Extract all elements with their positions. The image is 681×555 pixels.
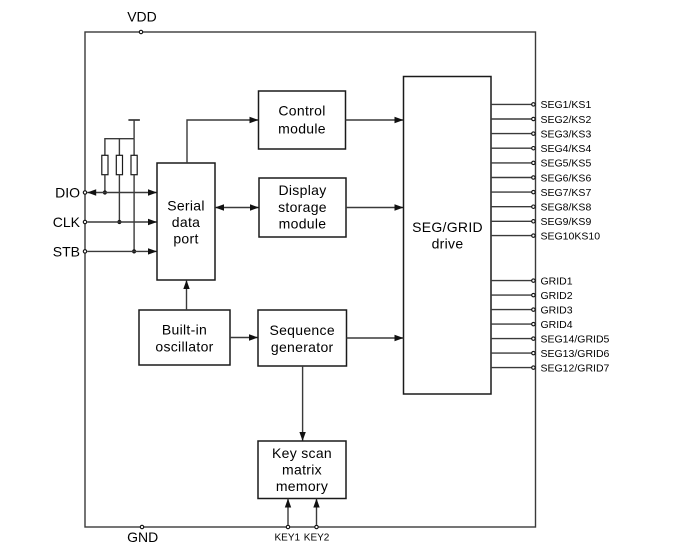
svg-text:oscillator: oscillator bbox=[155, 338, 213, 354]
resistor R2 (CLK pull-up) bbox=[116, 155, 122, 174]
pin SEG5/KS5 bbox=[491, 158, 591, 170]
block Key scan matrix memory bbox=[258, 441, 346, 499]
resistor R1 (DIO pull-up) bbox=[102, 155, 108, 174]
svg-text:Sequence: Sequence bbox=[269, 322, 334, 338]
junction STB-R3 bbox=[132, 249, 136, 253]
svg-text:Built-in: Built-in bbox=[162, 321, 207, 337]
pin GRID3 bbox=[491, 304, 573, 316]
pin VDD bbox=[127, 9, 157, 34]
svg-text:KEY2: KEY2 bbox=[304, 533, 330, 544]
svg-text:SEG12/GRID7: SEG12/GRID7 bbox=[541, 362, 610, 374]
svg-text:module: module bbox=[279, 216, 327, 232]
pin KEY1 bbox=[275, 499, 301, 544]
resistor R3 (STB pull-up) bbox=[131, 155, 137, 174]
wire R1 to DIO line bbox=[104, 175, 106, 193]
pin SEG3/KS3 bbox=[491, 128, 591, 140]
svg-text:SEG9/KS9: SEG9/KS9 bbox=[541, 216, 592, 228]
VDD rail bar symbol bbox=[128, 120, 140, 139]
svg-text:GRID3: GRID3 bbox=[541, 304, 573, 316]
svg-text:SEG14/GRID5: SEG14/GRID5 bbox=[541, 333, 610, 345]
svg-text:VDD: VDD bbox=[127, 9, 157, 25]
svg-text:SEG4/KS4: SEG4/KS4 bbox=[541, 143, 592, 155]
pin GRID1 bbox=[491, 275, 573, 287]
pin SEG12/GRID7 bbox=[491, 362, 610, 374]
svg-text:SEG/GRID: SEG/GRID bbox=[412, 219, 483, 235]
svg-text:SEG10KS10: SEG10KS10 bbox=[541, 230, 601, 242]
svg-text:storage: storage bbox=[278, 199, 327, 215]
pin KEY2 bbox=[304, 499, 330, 544]
wire Sequence generator to Key scan matrix memory bbox=[299, 366, 305, 441]
pin SEG6/KS6 bbox=[491, 172, 591, 184]
pin SEG8/KS8 bbox=[491, 202, 591, 214]
svg-text:SEG7/KS7: SEG7/KS7 bbox=[541, 187, 592, 199]
wire R2 to CLK line bbox=[118, 175, 120, 222]
svg-text:module: module bbox=[278, 120, 326, 136]
pin SEG7/KS7 bbox=[491, 187, 591, 199]
block Sequence generator bbox=[258, 310, 347, 366]
block Display storage module bbox=[259, 178, 346, 237]
IC outer boundary bbox=[85, 32, 536, 527]
svg-text:SEG3/KS3: SEG3/KS3 bbox=[541, 128, 592, 140]
wire resistor top bus bbox=[105, 139, 134, 156]
wire CLK to Serial data port bbox=[87, 219, 157, 225]
svg-text:SEG8/KS8: SEG8/KS8 bbox=[541, 202, 592, 214]
svg-text:memory: memory bbox=[276, 478, 328, 494]
svg-text:drive: drive bbox=[432, 236, 464, 252]
pin GND bbox=[127, 525, 158, 545]
block Control module bbox=[259, 91, 346, 149]
wire Control module to SEG/GRID drive bbox=[346, 117, 404, 123]
svg-text:matrix: matrix bbox=[282, 462, 322, 478]
svg-text:data: data bbox=[172, 214, 200, 230]
pin SEG1/KS1 bbox=[491, 99, 591, 111]
pin SEG10KS10 bbox=[491, 230, 600, 242]
svg-text:SEG5/KS5: SEG5/KS5 bbox=[541, 158, 592, 170]
svg-text:Display: Display bbox=[278, 182, 326, 198]
wire Display storage module to SEG/GRID drive bbox=[346, 204, 404, 210]
wire R3 to STB line bbox=[133, 175, 135, 252]
pin GRID2 bbox=[491, 290, 573, 302]
svg-text:GRID1: GRID1 bbox=[541, 275, 573, 287]
svg-text:SEG6/KS6: SEG6/KS6 bbox=[541, 172, 592, 184]
svg-text:Key scan: Key scan bbox=[272, 445, 332, 461]
svg-text:generator: generator bbox=[271, 339, 334, 355]
pin SEG4/KS4 bbox=[491, 143, 591, 155]
wire Built-in oscillator to Sequence generator bbox=[230, 334, 258, 340]
svg-text:SEG2/KS2: SEG2/KS2 bbox=[541, 114, 592, 126]
wire Serial data port to Display storage module (bidirectional) bbox=[215, 204, 259, 210]
svg-text:STB: STB bbox=[53, 243, 80, 259]
wire Sequence generator to SEG/GRID drive bbox=[347, 335, 404, 341]
svg-text:CLK: CLK bbox=[53, 214, 81, 230]
wire DIO bidirectional to Serial data port bbox=[87, 189, 157, 195]
pin DIO bbox=[55, 184, 87, 200]
block Built-in oscillator bbox=[139, 310, 230, 365]
block SEG/GRID drive bbox=[404, 77, 492, 395]
svg-text:Serial: Serial bbox=[167, 197, 205, 213]
wire Built-in oscillator to Serial data port bbox=[183, 280, 189, 310]
junction DIO-R1 bbox=[103, 190, 107, 194]
pin GRID4 bbox=[491, 319, 573, 331]
pin SEG13/GRID6 bbox=[491, 348, 610, 360]
svg-text:KEY1: KEY1 bbox=[275, 533, 301, 544]
svg-text:GND: GND bbox=[127, 529, 158, 545]
svg-text:GRID4: GRID4 bbox=[541, 319, 573, 331]
pin SEG9/KS9 bbox=[491, 216, 591, 228]
svg-text:SEG13/GRID6: SEG13/GRID6 bbox=[541, 348, 610, 360]
svg-text:SEG1/KS1: SEG1/KS1 bbox=[541, 99, 592, 111]
svg-text:DIO: DIO bbox=[55, 184, 80, 200]
pin STB bbox=[53, 243, 87, 259]
pin CLK bbox=[53, 214, 87, 230]
wire Serial data port to Control module bbox=[187, 117, 259, 163]
block Serial data port bbox=[157, 163, 215, 280]
svg-text:GRID2: GRID2 bbox=[541, 290, 573, 302]
pin SEG14/GRID5 bbox=[491, 333, 610, 345]
wire STB to Serial data port bbox=[87, 248, 157, 254]
svg-text:port: port bbox=[173, 231, 198, 247]
svg-text:Control: Control bbox=[278, 102, 325, 118]
junction CLK-R2 bbox=[117, 220, 121, 224]
pin SEG2/KS2 bbox=[491, 114, 591, 126]
